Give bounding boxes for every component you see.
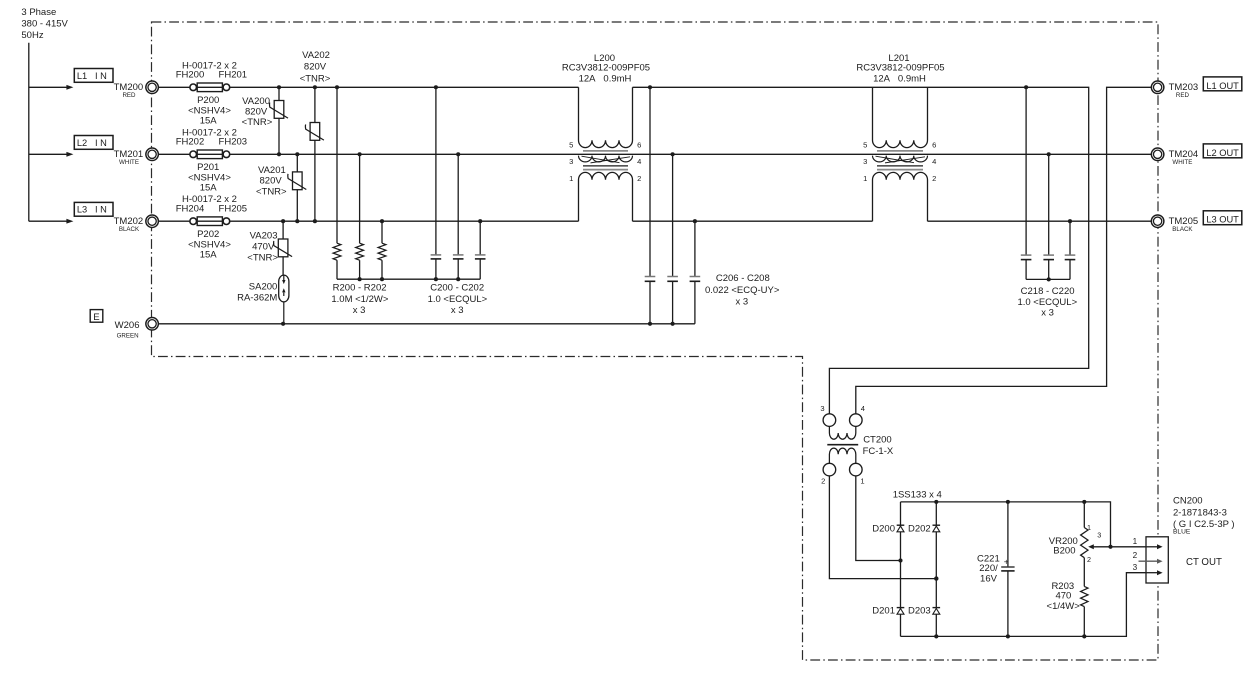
svg-text:L1 I N: L1 I N	[77, 71, 107, 81]
terminal TM204	[1151, 148, 1198, 166]
fuse P200 H-0017-2	[197, 83, 222, 92]
pin numbers CN200	[1133, 537, 1138, 572]
diode D203	[933, 608, 941, 615]
svg-text:FH200: FH200	[176, 70, 205, 81]
svg-text:L2 I N: L2 I N	[77, 138, 107, 148]
pin numbers L201	[863, 140, 936, 183]
svg-text:3: 3	[863, 157, 867, 166]
svg-text:B200: B200	[1053, 545, 1075, 556]
labels diodes 1SS133 x 4	[872, 490, 942, 617]
svg-text:CT200: CT200	[863, 434, 892, 445]
svg-text:GREEN: GREEN	[117, 332, 139, 339]
svg-text:4: 4	[932, 157, 936, 166]
svg-text:1.0M <1/2W>: 1.0M <1/2W>	[331, 294, 388, 305]
svg-text:x 3: x 3	[451, 305, 464, 316]
svg-text:4: 4	[861, 404, 865, 413]
junction dots earth wire	[281, 322, 675, 326]
svg-text:2: 2	[821, 477, 825, 486]
svg-text:1: 1	[569, 174, 573, 183]
svg-text:D201: D201	[872, 606, 895, 617]
labels SA200 RA-362M	[237, 282, 277, 304]
labels C218 - C220 1.0 ECQUL x 3	[1017, 286, 1077, 318]
capacitor C221 (electrolytic)	[1001, 502, 1014, 637]
svg-text:WHITE: WHITE	[119, 159, 139, 166]
svg-text:1SS133 x 4: 1SS133 x 4	[893, 490, 942, 501]
varistor VA201	[288, 154, 307, 221]
labels VA200 820V TNR	[242, 96, 273, 128]
fuse holder FH202	[190, 151, 197, 158]
current transformer CT200	[823, 414, 862, 476]
svg-text:5: 5	[863, 140, 867, 149]
node L2 IN	[74, 136, 113, 150]
svg-text:VA203: VA203	[250, 231, 278, 242]
wire: bridge right column	[935, 502, 937, 637]
wire: shield enclosure dash-dot boundary	[152, 22, 1159, 660]
labels C221 220/16V	[977, 553, 1000, 584]
wire L2 (TM201 to TM204)	[158, 153, 1151, 155]
svg-text:820V: 820V	[245, 107, 268, 118]
svg-text:RC3V3812-009PF05: RC3V3812-009PF05	[562, 63, 650, 74]
capacitor C202	[475, 221, 486, 279]
labels VA203 470V TNR	[247, 231, 278, 264]
svg-text:L1 OUT: L1 OUT	[1206, 81, 1239, 91]
svg-text:RED: RED	[122, 92, 136, 99]
svg-text:D202: D202	[908, 524, 931, 535]
svg-text:50Hz: 50Hz	[21, 30, 43, 41]
node L3 IN	[74, 202, 113, 216]
svg-text:WHITE: WHITE	[1172, 159, 1192, 166]
svg-text:FH201: FH201	[219, 70, 248, 81]
terminal TM203	[1151, 81, 1198, 99]
svg-text:BLUE: BLUE	[1173, 529, 1191, 536]
svg-text:<TNR>: <TNR>	[256, 186, 287, 197]
common-mode choke L200	[579, 87, 633, 221]
svg-text:470: 470	[1055, 591, 1071, 602]
svg-text:L3 OUT: L3 OUT	[1206, 215, 1239, 225]
svg-text:FH204: FH204	[176, 204, 205, 215]
node: 3-phase source annotation	[21, 7, 68, 41]
connector CN200	[1139, 537, 1169, 583]
junction dots L1	[277, 85, 1028, 89]
svg-text:12A 0.9mH: 12A 0.9mH	[579, 74, 632, 85]
svg-text:<TNR>: <TNR>	[300, 73, 331, 84]
wire CT secondary pin 2 to bridge	[829, 476, 936, 579]
svg-text:FC-1-X: FC-1-X	[863, 446, 894, 457]
wire earth (W206 to C208)	[158, 323, 695, 325]
node L2 OUT	[1203, 144, 1242, 158]
svg-text:5: 5	[569, 140, 573, 149]
svg-text:+: +	[1004, 556, 1009, 566]
svg-text:4: 4	[637, 157, 641, 166]
svg-text:BLACK: BLACK	[1172, 226, 1193, 233]
wire: C218-C220 star point	[1026, 278, 1070, 280]
terminal TM201	[114, 148, 159, 166]
wire L1 (TM200 to L200)	[158, 86, 578, 88]
svg-text:2: 2	[1133, 551, 1138, 560]
capacitor C218	[1021, 87, 1032, 279]
svg-text:D203: D203	[908, 606, 931, 617]
svg-text:820V: 820V	[260, 176, 283, 187]
wire L3 (L200 to L201)	[633, 220, 873, 222]
common-mode choke L201	[873, 87, 928, 221]
svg-text:1: 1	[860, 476, 864, 485]
wire: DC bottom rail	[901, 573, 1147, 637]
svg-text:C206 - C208: C206 - C208	[716, 273, 770, 284]
svg-text:1.0 <ECQUL>: 1.0 <ECQUL>	[428, 294, 488, 305]
svg-text:W206: W206	[115, 320, 140, 331]
capacitor C207	[667, 154, 678, 323]
svg-text:1.0 <ECQUL>: 1.0 <ECQUL>	[1017, 297, 1077, 308]
svg-text:E: E	[93, 312, 99, 323]
svg-text:3 Phase: 3 Phase	[21, 7, 56, 18]
node L1 IN	[74, 69, 113, 83]
svg-text:0.022 <ECQ-UY>: 0.022 <ECQ-UY>	[705, 285, 780, 296]
svg-text:x 3: x 3	[735, 296, 748, 307]
svg-text:380 - 415V: 380 - 415V	[21, 19, 68, 30]
svg-text:820V: 820V	[304, 61, 327, 72]
svg-text:C200 - C202: C200 - C202	[430, 282, 484, 293]
labels C206 - C208 0.022 ECQ-UY x 3	[705, 273, 780, 308]
fuse holder FH201	[223, 84, 230, 91]
wire: R/C star point	[337, 278, 480, 280]
resistor R200	[333, 87, 341, 279]
wire L1 (L200 to CT primary)	[633, 87, 1089, 414]
node L1 OUT	[1203, 77, 1242, 91]
labels C200 - C202 1.0 ECQUL x 3	[428, 282, 488, 316]
svg-text:<TNR>: <TNR>	[242, 117, 273, 128]
wire: 3-phase feed with arrows	[29, 43, 74, 224]
junction dots L2	[277, 152, 1051, 156]
wire L3 (TM202 to L200)	[158, 220, 578, 222]
terminal TM205	[1151, 215, 1198, 233]
capacitor C201	[453, 154, 464, 279]
fuse P201 H-0017-2	[197, 150, 222, 159]
svg-text:FH203: FH203	[219, 137, 248, 148]
fuse holder FH204	[190, 218, 197, 225]
junction dots L3	[281, 219, 1072, 223]
wire: bridge left column	[900, 502, 902, 637]
capacitor C200	[431, 87, 442, 279]
svg-text:C218 - C220: C218 - C220	[1021, 286, 1075, 297]
varistor VA203	[274, 221, 293, 275]
svg-text:R200 - R202: R200 - R202	[333, 282, 387, 293]
diode D201	[897, 608, 905, 615]
svg-text:15A: 15A	[200, 250, 218, 261]
svg-text:1: 1	[1133, 537, 1138, 546]
resistor R201	[356, 154, 364, 279]
wire L1 (CT primary to TM203)	[856, 87, 1152, 414]
node E (earth box)	[90, 310, 103, 323]
svg-text:VA202: VA202	[302, 50, 330, 61]
labels fuse P202	[176, 194, 247, 260]
fuse P202 H-0017-2	[197, 217, 222, 226]
svg-text:RA-362M: RA-362M	[237, 293, 277, 304]
svg-text:BLACK: BLACK	[119, 226, 140, 233]
svg-text:x 3: x 3	[1041, 307, 1054, 318]
node L3 OUT	[1203, 211, 1242, 225]
svg-text:VA200: VA200	[242, 96, 270, 107]
labels CT200 FC-1-X	[863, 434, 894, 457]
svg-text:D200: D200	[872, 524, 895, 535]
varistor VA200	[270, 87, 289, 154]
wire CT secondary pin 1 to bridge	[856, 476, 901, 561]
labels VA202 820V TNR	[300, 50, 331, 85]
pin numbers L200	[569, 140, 641, 183]
labels fuse P200	[176, 60, 247, 126]
labels L201 RC3V3812-009PF05 12A 0.9mH	[856, 53, 944, 85]
pin numbers VR200	[1087, 523, 1101, 564]
svg-text:2-1871843-3: 2-1871843-3	[1173, 507, 1227, 518]
labels fuse P201	[176, 127, 247, 193]
svg-text:FH202: FH202	[176, 137, 205, 148]
svg-text:2: 2	[932, 174, 936, 183]
terminal TM200	[114, 81, 159, 99]
svg-text:12A 0.9mH: 12A 0.9mH	[873, 74, 926, 85]
svg-text:6: 6	[637, 140, 641, 149]
svg-text:CN200: CN200	[1173, 496, 1203, 507]
svg-text:1: 1	[863, 174, 867, 183]
potentiometer VR200	[1081, 502, 1146, 587]
diode D202	[933, 525, 941, 532]
capacitor C206	[645, 87, 656, 323]
capacitor C219	[1043, 154, 1054, 279]
svg-text:2: 2	[637, 174, 641, 183]
terminal W206 (earth)	[115, 318, 159, 340]
labels VA201 820V TNR	[256, 165, 287, 197]
svg-text:15A: 15A	[200, 183, 218, 194]
svg-text:L3 I N: L3 I N	[77, 205, 107, 215]
fuse holder FH200	[190, 84, 197, 91]
labels L200 RC3V3812-009PF05 12A 0.9mH	[562, 53, 650, 85]
svg-text:<1/4W>: <1/4W>	[1047, 601, 1081, 612]
svg-text:VA201: VA201	[258, 165, 286, 176]
svg-text:3: 3	[1097, 530, 1101, 539]
wire: DC top rail	[901, 502, 1111, 547]
svg-text:SA200: SA200	[249, 282, 278, 293]
svg-text:16V: 16V	[980, 573, 998, 584]
wire L3 (L201 to TM205)	[928, 220, 1152, 222]
svg-text:3: 3	[1133, 563, 1138, 572]
svg-text:<TNR>: <TNR>	[247, 253, 278, 264]
svg-text:x 3: x 3	[353, 305, 366, 316]
labels R203 470 1/4W	[1047, 581, 1081, 612]
svg-text:15A: 15A	[200, 116, 218, 127]
svg-text:2: 2	[1087, 555, 1091, 564]
diode D200	[897, 525, 905, 532]
capacitor C208	[690, 221, 701, 324]
svg-text:FH205: FH205	[219, 204, 248, 215]
svg-text:470V: 470V	[252, 242, 275, 253]
fuse holder FH205	[223, 218, 230, 225]
svg-text:6: 6	[932, 140, 936, 149]
labels VR200 B200	[1049, 536, 1078, 557]
svg-text:3: 3	[569, 157, 573, 166]
labels R200 - R202 1.0M 1/2W x 3	[331, 282, 388, 316]
terminal TM202	[114, 215, 159, 233]
resistor R203	[1081, 586, 1088, 636]
capacitor C220	[1065, 221, 1076, 279]
varistor VA202	[305, 87, 323, 221]
svg-text:RED: RED	[1176, 92, 1190, 99]
svg-text:L2 OUT: L2 OUT	[1206, 148, 1239, 158]
fuse holder FH203	[223, 151, 230, 158]
resistor R202	[378, 221, 386, 279]
svg-text:RC3V3812-009PF05: RC3V3812-009PF05	[856, 63, 944, 74]
svg-text:3: 3	[820, 404, 824, 413]
svg-text:1: 1	[1087, 523, 1091, 532]
svg-text:CT OUT: CT OUT	[1186, 557, 1222, 568]
surge arrester SA200	[279, 275, 289, 324]
labels CN200 2-1871843-3 GIC2.5-3P BLUE	[1173, 496, 1235, 536]
pin numbers CT200	[820, 404, 865, 485]
